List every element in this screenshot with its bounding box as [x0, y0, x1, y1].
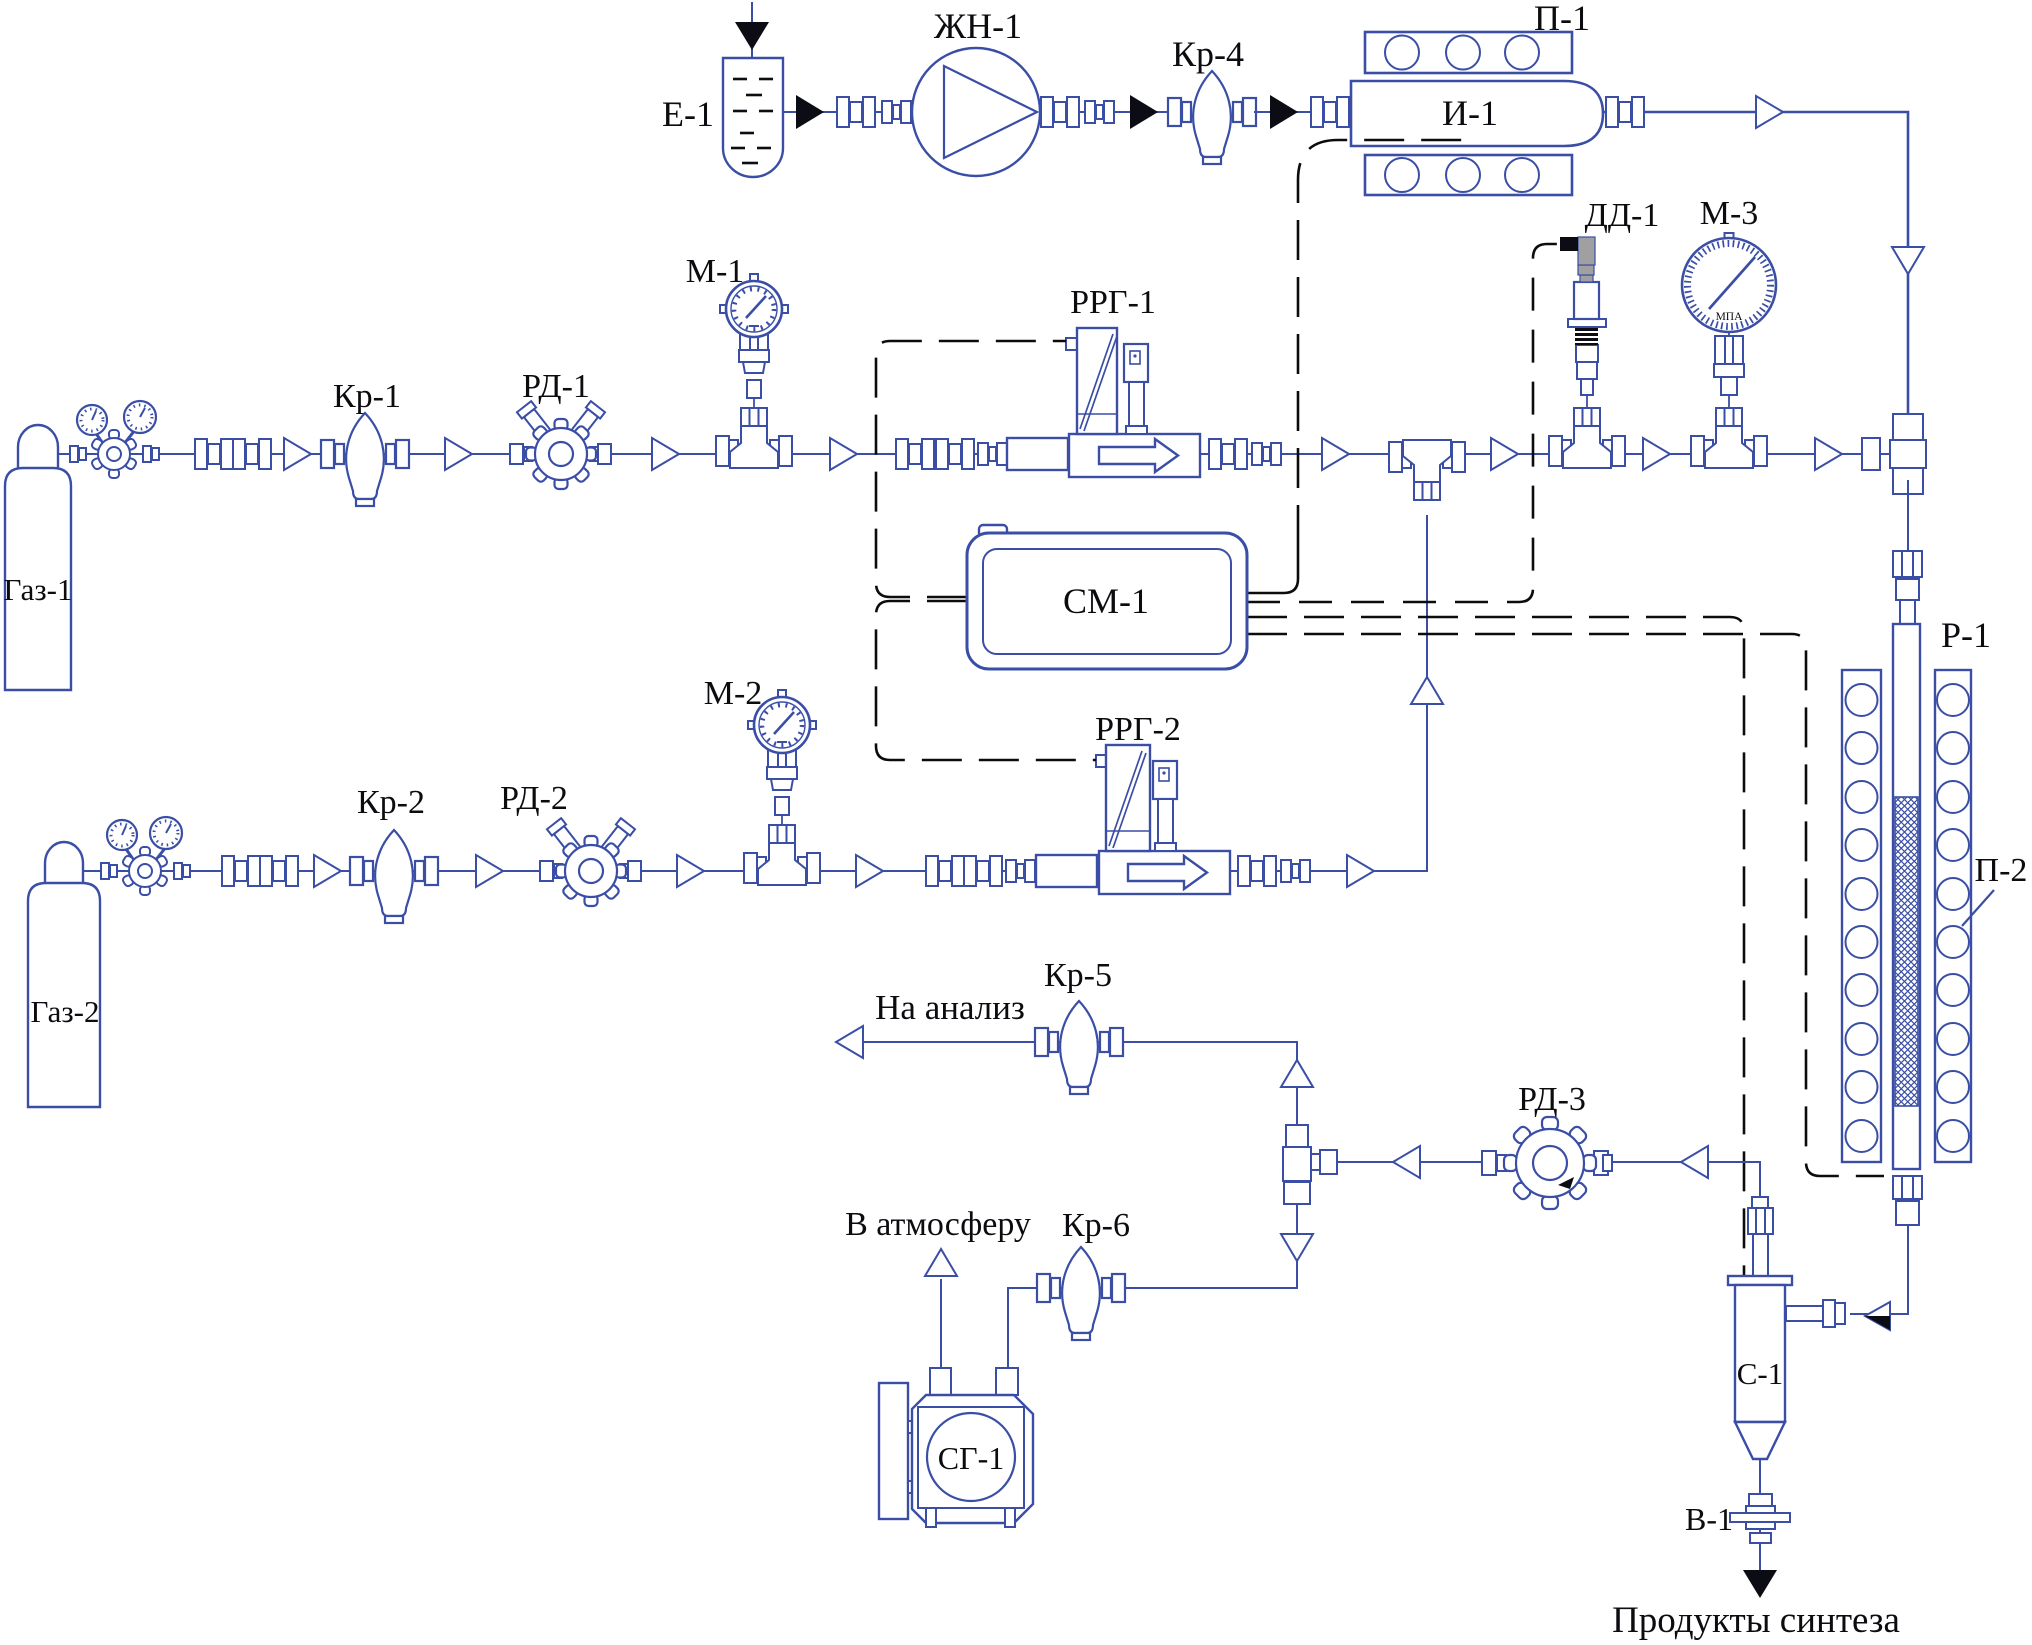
tank E-1 — [723, 58, 783, 177]
wire: feed line into tank E-1 — [751, 2, 753, 58]
svg-text:На анализ: На анализ — [875, 988, 1025, 1027]
fitting small — [1281, 860, 1310, 882]
svg-text:Кр-6: Кр-6 — [1062, 1207, 1130, 1244]
separator S-1 — [1728, 1276, 1792, 1459]
arrow (filled) feed into E-1 — [735, 22, 769, 50]
arrow (open, down) on vertical line to mixer cross — [1892, 247, 1924, 274]
evaporator I-1 — [1351, 81, 1603, 146]
gas meter SG-1 — [879, 1368, 1033, 1527]
arrow (open) — [314, 855, 341, 887]
fitting union — [837, 97, 875, 127]
reactor catalyst bed — [1895, 797, 1918, 1106]
valve V-1 — [1730, 1494, 1790, 1543]
pressure transducer DD-1 assembly — [1549, 237, 1625, 468]
arrow (open) — [1347, 855, 1374, 887]
wire: reactor outlet to separator side port — [1850, 1225, 1908, 1314]
control line (dashed) SM-1 to RRG-1 — [876, 341, 1066, 597]
cylinder pressure regulator on Gaz-1 — [70, 401, 159, 478]
fitting small — [978, 443, 1007, 465]
fitting union — [964, 856, 1002, 886]
cross junction at reactor feed — [1862, 414, 1926, 494]
mass-flow controller RRG-2 — [1036, 745, 1230, 894]
wire: analysis line — [862, 1042, 1297, 1125]
svg-text:РД-3: РД-3 — [1518, 1081, 1586, 1118]
wire: separator bottom — [1759, 1459, 1761, 1570]
arrow (open) — [1815, 438, 1842, 470]
svg-text:РРГ-2: РРГ-2 — [1095, 711, 1181, 748]
regulator RD-1 — [510, 401, 611, 489]
wire: cross to reactor — [1907, 480, 1909, 560]
fitting small — [1006, 860, 1035, 882]
arrow (open) — [445, 438, 472, 470]
svg-text:П-2: П-2 — [1975, 852, 2028, 889]
svg-text:С-1: С-1 — [1737, 1356, 1784, 1391]
arrow (open, left) before RD-3 — [1681, 1146, 1708, 1178]
wire: Kr-4 to evaporator I-1 — [1254, 111, 1351, 113]
svg-text:В-1: В-1 — [1685, 1501, 1733, 1537]
furnace P-1 upper block — [1365, 32, 1572, 73]
arrow (open) — [830, 438, 857, 470]
valve Kr-6 — [1037, 1247, 1125, 1340]
fitting union — [1209, 439, 1247, 469]
arrow (open, up) analysis riser — [1281, 1060, 1313, 1087]
svg-text:СГ-1: СГ-1 — [938, 1440, 1005, 1476]
arrow (open) — [677, 855, 704, 887]
svg-text:РРГ-1: РРГ-1 — [1070, 284, 1156, 321]
fitting union — [1041, 97, 1079, 127]
svg-text:Е-1: Е-1 — [662, 94, 714, 134]
svg-text:М-1: М-1 — [686, 253, 745, 290]
furnace P-2 right panel — [1935, 670, 1971, 1162]
svg-text:РД-1: РД-1 — [522, 368, 590, 405]
fitting union — [195, 439, 233, 469]
wire: vent line from cross to SG-1 — [1008, 1204, 1297, 1368]
fitting union — [926, 856, 964, 886]
svg-text:М-2: М-2 — [704, 675, 763, 712]
control line (dashed) SM-1 to separator zone — [1247, 617, 1744, 1346]
arrow (filled, down) products outlet — [1743, 1570, 1777, 1598]
fitting union — [260, 856, 298, 886]
arrow (half filled) into separator — [1865, 1302, 1890, 1330]
tee junction to line 2 — [1389, 440, 1465, 500]
arrow (open, left) to analysis — [836, 1026, 863, 1058]
mass-flow controller RRG-1 — [1007, 328, 1200, 477]
valve Kr-1 — [321, 413, 409, 506]
arrow (open) — [1643, 438, 1670, 470]
fitting union after I-1 — [1606, 97, 1644, 127]
fitting union — [1311, 97, 1349, 127]
pump ZHN-1 — [912, 48, 1040, 176]
manometer M-3 assembly — [1682, 233, 1776, 468]
furnace P-1 lower block — [1365, 155, 1572, 195]
svg-text:Кр-2: Кр-2 — [357, 784, 425, 821]
arrow (open) — [476, 855, 503, 887]
control line (dashed) riser to I-1 heater — [1298, 140, 1469, 545]
cross junction analysis/vent — [1283, 1125, 1337, 1204]
separator top fittings — [1748, 1197, 1773, 1276]
manometer M-1 assembly — [716, 274, 792, 468]
arrow (open) — [284, 438, 311, 470]
reactor bottom fittings — [1893, 1176, 1922, 1225]
arrow (open, down) vent branch — [1281, 1234, 1313, 1261]
svg-text:И-1: И-1 — [1442, 93, 1498, 133]
reactor top fittings — [1893, 551, 1922, 624]
svg-text:П-1: П-1 — [1534, 0, 1590, 38]
fitting union — [936, 439, 974, 469]
control line (dashed) SM-1 to reactor furnace — [1247, 634, 1884, 1176]
wire: pump to valve Kr-4 — [1040, 111, 1170, 113]
arrow (open) — [1322, 438, 1349, 470]
control line (dashed) SM-1 to RRG-2 — [876, 601, 1096, 760]
reactor R-1 tube — [1893, 624, 1920, 1169]
wire: E-1 to pump — [783, 111, 912, 113]
fitting union — [233, 439, 271, 469]
wire: RD-3 line to separator top — [1336, 1162, 1760, 1197]
arrow (open) on I-1 outlet — [1756, 96, 1783, 128]
fitting small — [882, 101, 911, 123]
svg-text:МПА: МПА — [1716, 311, 1744, 323]
svg-text:В атмосферу: В атмосферу — [845, 1206, 1031, 1243]
svg-text:Продукты синтеза: Продукты синтеза — [1612, 1600, 1900, 1641]
svg-text:Кр-1: Кр-1 — [333, 378, 401, 415]
fitting small — [1085, 101, 1114, 123]
controller SM-1 — [967, 525, 1247, 669]
svg-text:РД-2: РД-2 — [500, 780, 568, 817]
arrow (open, left) from RD-3 — [1393, 1146, 1420, 1178]
svg-text:ЖН-1: ЖН-1 — [934, 6, 1022, 46]
wire: gas line 1 — [58, 453, 1896, 455]
arrow (filled) E-1 outlet — [796, 95, 824, 129]
svg-text:Р-1: Р-1 — [1941, 615, 1991, 655]
valve Kr-2 — [350, 830, 438, 923]
gas cylinder Gaz-1 — [5, 425, 71, 690]
wire: I-1 outlet to down corner — [1603, 112, 1908, 414]
separator side port fitting — [1786, 1300, 1845, 1327]
control line SM-1 to I-1 heater (solid start) — [1247, 545, 1298, 593]
svg-text:Газ-1: Газ-1 — [4, 572, 73, 607]
wire: atmosphere line — [940, 1279, 942, 1368]
fitting union — [1238, 856, 1276, 886]
valve Kr-5 — [1035, 1001, 1123, 1094]
svg-text:Газ-2: Газ-2 — [31, 994, 100, 1029]
arrow (open) — [1491, 438, 1518, 470]
arrow (open, up) on riser to line 1 — [1411, 677, 1443, 704]
svg-text:Кр-4: Кр-4 — [1172, 34, 1244, 74]
valve Kr-4 — [1168, 71, 1256, 164]
fitting union — [896, 439, 934, 469]
arrow (open) — [856, 855, 883, 887]
arrow (open, up) to atmosphere — [925, 1249, 957, 1276]
svg-text:ДД-1: ДД-1 — [1585, 197, 1660, 234]
svg-text:СМ-1: СМ-1 — [1063, 581, 1149, 621]
cylinder pressure regulator on Gaz-2 — [101, 817, 190, 895]
fitting small — [1252, 443, 1281, 465]
fitting union — [222, 856, 260, 886]
svg-text:Кр-5: Кр-5 — [1044, 957, 1112, 994]
regulator RD-2 — [540, 818, 641, 906]
furnace P-2 left panel — [1842, 670, 1881, 1162]
arrow (open) — [652, 438, 679, 470]
control line (dashed) SM-1 to DD-1 — [1247, 244, 1560, 602]
wire: gas line 2 and riser to line 1 tee — [83, 515, 1427, 871]
svg-text:М-3: М-3 — [1700, 195, 1759, 232]
wire: RD-3 line left of cross — [1313, 1161, 1336, 1163]
arrow (filled) before Kr-4 — [1130, 95, 1158, 129]
gas cylinder Gaz-2 — [28, 842, 100, 1107]
arrow (filled) before I-1 — [1270, 95, 1298, 129]
regulator RD-3 — [1482, 1117, 1612, 1209]
manometer M-2 assembly — [744, 690, 820, 885]
